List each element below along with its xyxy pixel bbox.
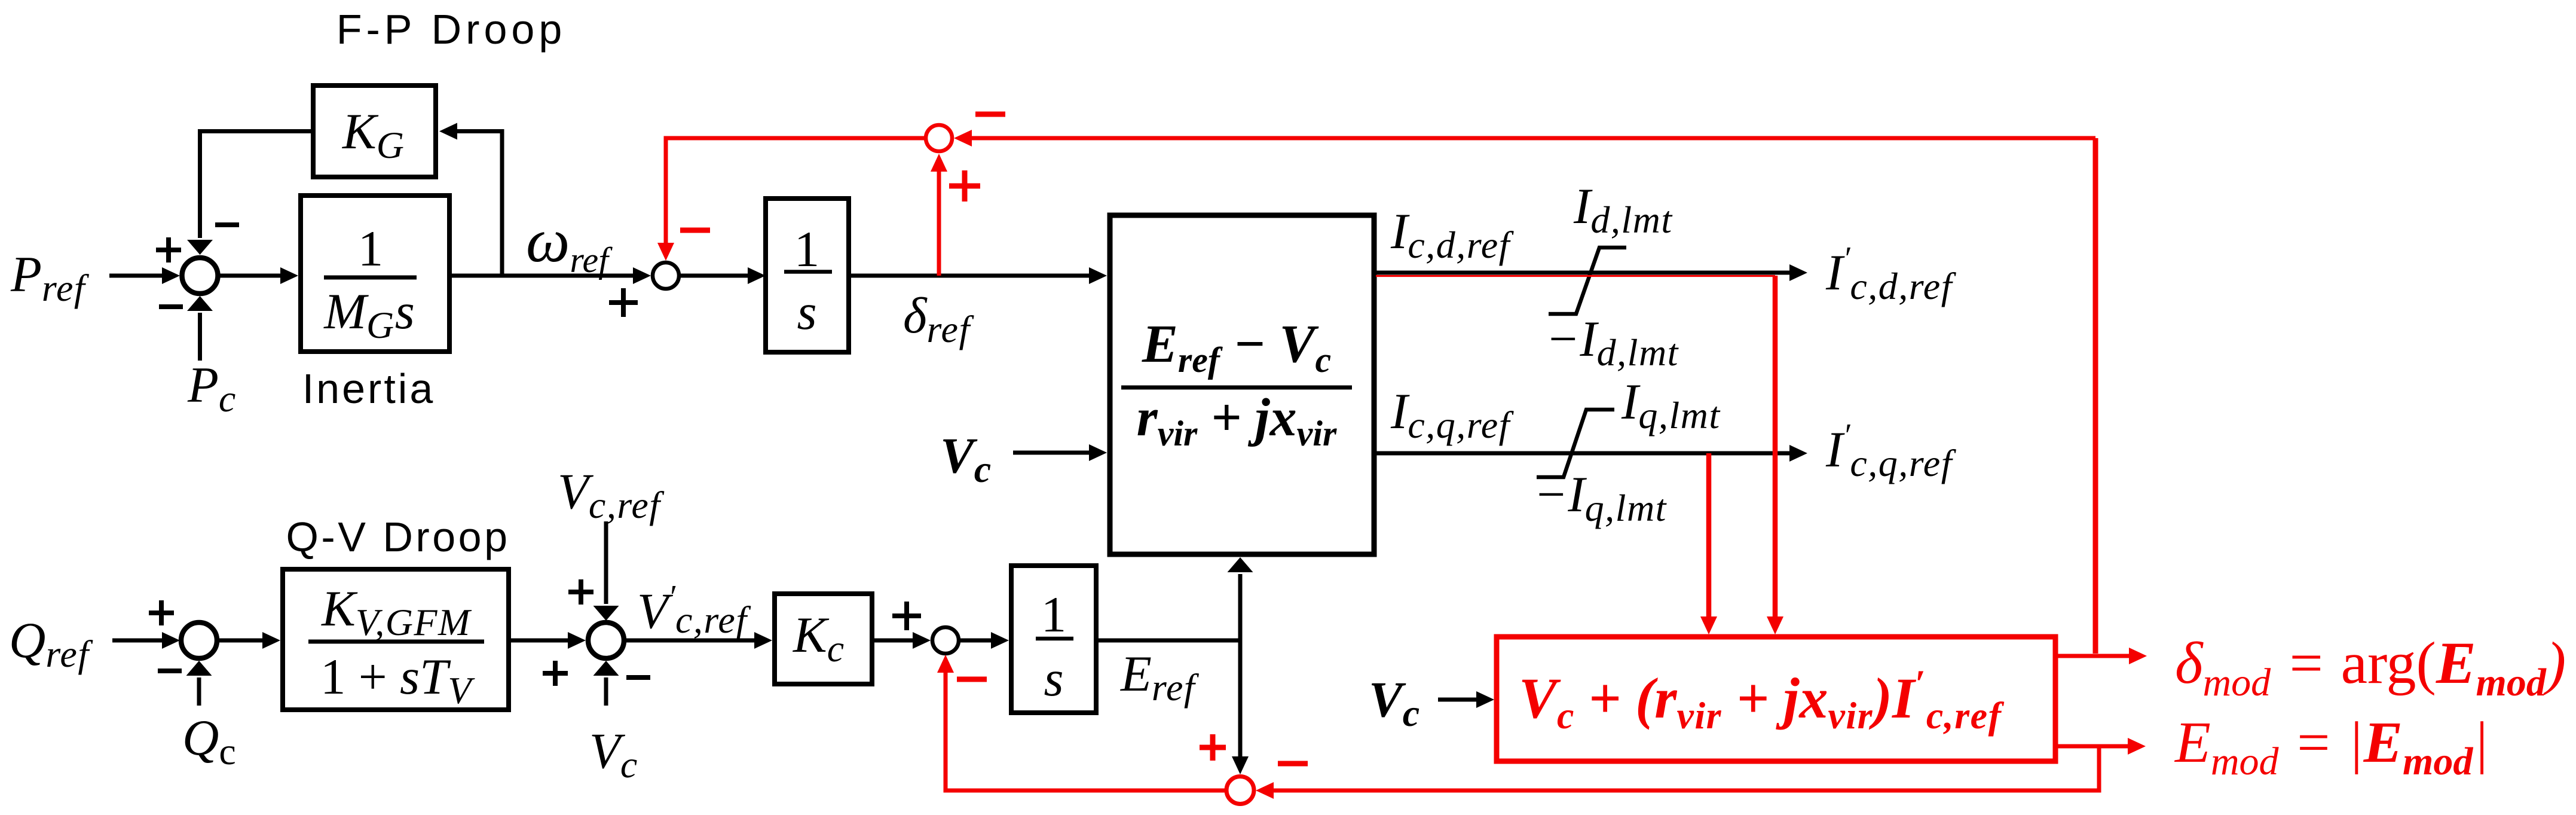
saturation limiter symbol (q-axis) bbox=[1537, 410, 1614, 477]
plus sign at S5 input bbox=[892, 602, 921, 630]
svg-text:s: s bbox=[1044, 651, 1063, 707]
wire V_c into red block bbox=[1438, 698, 1477, 702]
red summing node R1 (angle correction) bbox=[926, 125, 952, 151]
summing node S2 (angle) bbox=[653, 262, 679, 289]
red wire R2 output up into S5 bbox=[946, 671, 1225, 790]
summing node S3 (Q) bbox=[181, 622, 217, 658]
red minus sign at S5 bottom bbox=[957, 677, 987, 682]
block Inertia 1/(M_G s) bbox=[301, 196, 449, 352]
red wire delta_mod feedback into R1 bbox=[971, 136, 2095, 141]
minus sign at S1 bottom bbox=[159, 304, 183, 309]
saturation limiter symbol (d-axis) bbox=[1549, 248, 1626, 314]
svg-text:1: 1 bbox=[1041, 587, 1067, 643]
wire Q_c up into S3 bbox=[197, 677, 201, 706]
wire E_ref output with riser to impedance block and down to red sum bbox=[1096, 639, 1240, 643]
red wire E_mod feedback down and left into R2 bbox=[1272, 746, 2099, 790]
wire Q_ref to S3 bbox=[112, 639, 163, 643]
plus sign at S2 input bbox=[609, 288, 638, 317]
wire Inertia to S2 (omega_ref) bbox=[450, 274, 634, 278]
svg-text:F-P Droop: F-P Droop bbox=[336, 6, 567, 53]
red summing node R2 (E correction) bbox=[1226, 777, 1254, 804]
wire S2 to integrator 1/s bbox=[681, 274, 749, 278]
plus sign at S4 input bbox=[543, 661, 568, 686]
plus sign at V_c,ref arrow bbox=[568, 579, 593, 605]
block integrator 1/s (angle) bbox=[766, 199, 849, 352]
svg-text:1: 1 bbox=[794, 221, 820, 277]
red plus sign left of E riser bbox=[1200, 734, 1226, 761]
plus sign at S3 input bbox=[149, 600, 174, 625]
red minus sign right of R1 bbox=[975, 112, 1005, 117]
wire V_c,ref down into S4 bbox=[604, 521, 608, 604]
block integrator 1/s (E) bbox=[1011, 566, 1096, 713]
block K_c bbox=[775, 594, 872, 684]
wire omega_ref tap into K_G bbox=[456, 132, 502, 276]
plus sign at S1 input bbox=[156, 237, 181, 262]
red minus sign right of R2 bbox=[1278, 761, 1308, 767]
svg-text:1: 1 bbox=[358, 221, 384, 277]
red wire delta_ref tap up into R1 bbox=[937, 170, 941, 276]
wire K_c to S5 bbox=[874, 639, 914, 643]
minus sign at S1 top (droop feedback) bbox=[215, 222, 239, 227]
wire I_c,q,ref output row bbox=[1374, 451, 1791, 456]
red wire R1 output down into S2 bbox=[666, 138, 924, 245]
svg-text:Eref − Vc: Eref − Vc bbox=[1142, 315, 1331, 380]
wire 1/s to virtual impedance block (delta_ref) bbox=[849, 274, 1090, 278]
red thin overlay wire on I_c,d,ref row bbox=[1376, 275, 1775, 277]
wire I_c,d,ref output row bbox=[1374, 271, 1791, 275]
red wire E_mod output bbox=[2058, 744, 2129, 749]
block Q-V droop K_V,GFM/(1+sT_V) bbox=[283, 569, 509, 710]
summing node S4 (voltage ref) bbox=[588, 622, 624, 658]
red wire d-axis feedback down into red block bbox=[1773, 276, 1778, 618]
minus sign at S3 bottom bbox=[158, 669, 182, 673]
wire P_c up into S1 bbox=[198, 313, 202, 361]
wire K_G output down into S1 bbox=[200, 132, 311, 239]
wire Q-V droop block to S4 bbox=[511, 639, 569, 643]
red minus sign at S2 top bbox=[680, 228, 710, 233]
wire S3 to Q-V droop block bbox=[218, 639, 264, 643]
minus sign at S4 bottom bbox=[626, 675, 650, 680]
svg-text:s: s bbox=[797, 284, 816, 340]
wire V_c into impedance block bbox=[1013, 451, 1090, 455]
red wire q-axis feedback down into red block bbox=[1706, 453, 1712, 618]
wire S5 to integrator 1/s (E) bbox=[960, 639, 992, 643]
block (E_ref - V_c)/(r_vir + j x_vir) bbox=[1110, 215, 1374, 554]
wire V_c up into S4 bbox=[604, 677, 608, 706]
wire P_ref to S1 bbox=[109, 274, 163, 278]
wire S4 to K_c block bbox=[626, 639, 755, 643]
summing node S1 (P) bbox=[182, 258, 218, 294]
red wire delta_mod output bbox=[2058, 654, 2130, 658]
svg-text:Inertia: Inertia bbox=[302, 365, 436, 412]
red plus sign below R1 bbox=[949, 170, 980, 202]
wire S1 to Inertia block bbox=[220, 274, 282, 278]
block K_G bbox=[313, 86, 436, 177]
summing node S5 (E) bbox=[932, 627, 959, 654]
svg-text:Q-V Droop: Q-V Droop bbox=[286, 514, 510, 560]
red block V_c + (r_vir + j x_vir)I'_c,ref bbox=[1497, 637, 2055, 761]
